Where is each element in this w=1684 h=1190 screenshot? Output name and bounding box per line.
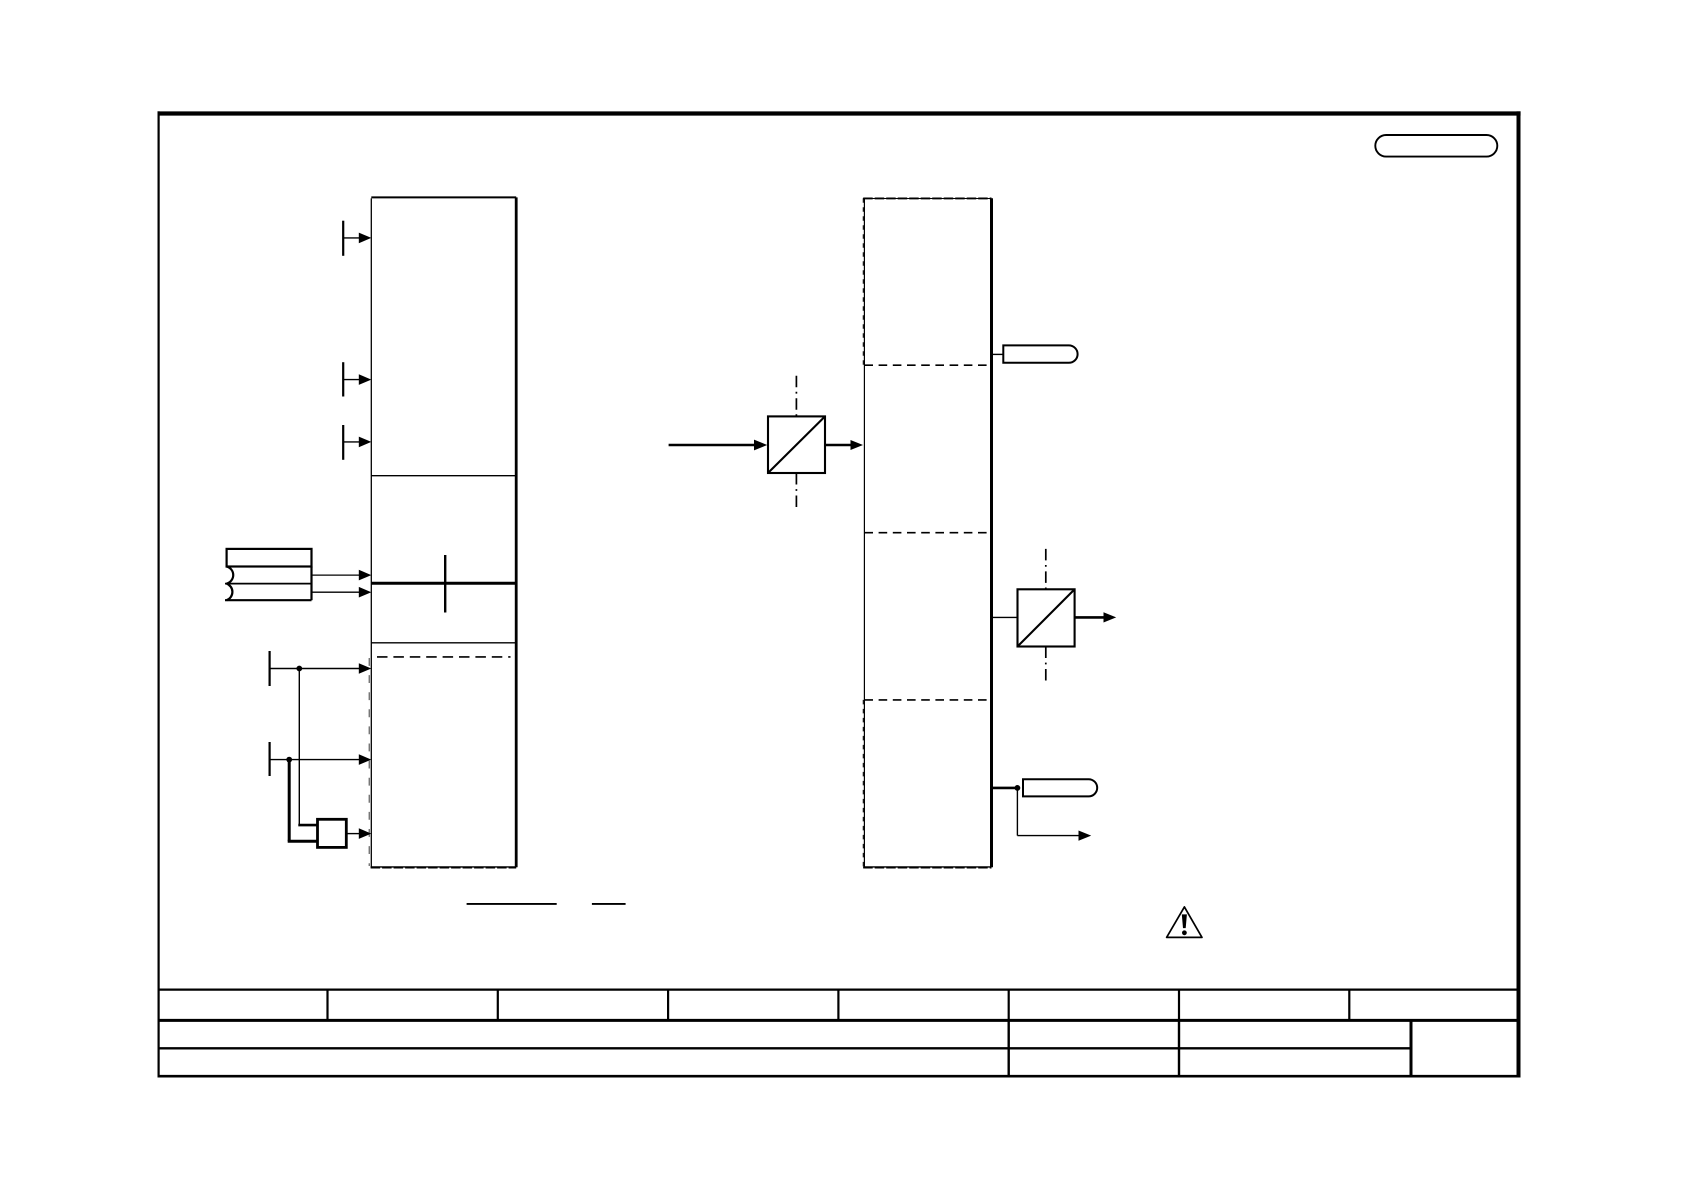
lower input B tick	[269, 742, 271, 776]
sheet frame border	[158, 111, 1521, 1077]
left box internal thick line	[371, 582, 516, 585]
converter U1 diagonal	[769, 417, 825, 472]
lower input A wire	[270, 668, 360, 670]
converter U1 output arrowhead	[851, 440, 864, 450]
junction dot A	[296, 666, 302, 672]
connector plug symbol	[225, 549, 312, 600]
text underline segment 2	[592, 903, 626, 905]
converter U2 box	[1018, 589, 1075, 646]
sheet number stadium	[1375, 135, 1497, 157]
converter U2 output wire	[1075, 616, 1104, 619]
option boundary dashed vertical (left box)	[368, 658, 370, 866]
converter U1 dash-dot line upper	[795, 376, 797, 417]
input arrow 3 tick	[342, 425, 344, 460]
converter U2 diagonal	[1018, 590, 1074, 646]
text underline segment 1	[467, 903, 557, 905]
converter U2 dash-dot line upper	[1045, 549, 1047, 589]
branch wire C horizontal	[1017, 835, 1078, 837]
input arrow 1 wire	[343, 237, 360, 239]
title block lower rows separators	[1008, 1020, 1010, 1076]
warning triangle exclamation dot	[1182, 930, 1187, 935]
title block	[158, 990, 1519, 1077]
converter U1 box	[768, 416, 825, 473]
converter U2 output arrowhead	[1104, 612, 1117, 622]
title block right info box	[1410, 1019, 1413, 1076]
connector wire row2	[312, 574, 361, 576]
branch arrow C head	[1079, 831, 1092, 841]
warning triangle exclamation bar	[1182, 914, 1187, 928]
converter U1 input arrowhead	[754, 440, 767, 451]
junction dot C	[1015, 785, 1021, 791]
terminal pill 1	[1003, 345, 1077, 362]
branch wire A vertical	[298, 669, 300, 826]
input arrow 1 head	[359, 233, 372, 244]
small box output wire	[346, 833, 360, 835]
branch wire A horizontal	[298, 824, 318, 827]
small interface box	[318, 819, 347, 847]
terminal pill 1 wire	[992, 353, 1004, 355]
left box internal line 2	[371, 642, 516, 644]
left box internal line 1	[371, 475, 516, 477]
left function block box	[371, 197, 517, 867]
terminal pill 2	[1023, 779, 1097, 796]
branch wire B horizontal thick	[288, 840, 318, 843]
right function block box	[863, 198, 991, 867]
right box dashed divider 3	[864, 699, 991, 701]
left box internal dashed line	[377, 656, 511, 658]
small box output arrowhead	[359, 828, 372, 839]
branch wire B vertical thick	[288, 760, 291, 842]
lower input B arrowhead	[359, 754, 372, 765]
input arrow 1 tick	[342, 221, 344, 256]
connector arrow row3 head	[359, 587, 372, 598]
converter U2 input wire	[992, 616, 1018, 618]
title block top row cell separators	[326, 990, 328, 1021]
title block top line	[158, 988, 1519, 990]
connector wire row3	[312, 591, 361, 593]
lower input A tick	[269, 651, 271, 686]
branch wire C vertical	[1016, 788, 1018, 836]
connector arrow row2 head	[359, 570, 372, 581]
converter U1 output wire	[825, 444, 851, 447]
right box dashed divider 2	[864, 532, 991, 534]
lower input B wire	[270, 759, 360, 761]
title block thick separator line	[158, 1019, 1519, 1022]
input arrow 3 wire	[343, 441, 360, 443]
input arrow 3 head	[359, 437, 372, 448]
vertical tick crossing thick line	[444, 555, 446, 613]
warning triangle	[1167, 907, 1202, 938]
converter U1 input wire	[669, 444, 754, 447]
right box dashed divider 1	[864, 364, 991, 366]
converter U2 dash-dot line lower	[1045, 647, 1047, 682]
junction dot B	[286, 757, 292, 763]
input arrow 2 tick	[342, 362, 344, 396]
lower input A arrowhead	[359, 663, 372, 674]
input arrow 2 wire	[343, 379, 360, 381]
converter U1 dash-dot line lower	[795, 473, 797, 509]
input arrow 2 head	[359, 374, 372, 385]
title block row separator	[158, 1047, 1412, 1049]
terminal pill 2 wire	[992, 787, 1018, 790]
